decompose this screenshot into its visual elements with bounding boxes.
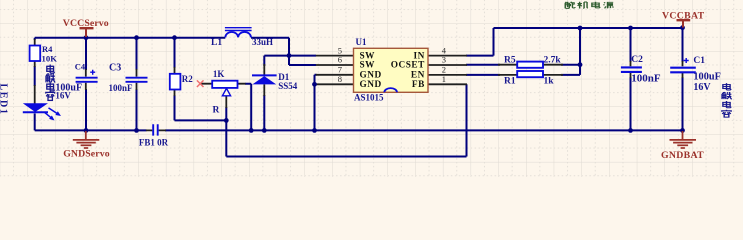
svg-text:GNDServo: GNDServo (63, 148, 110, 159)
svg-text:SW: SW (360, 61, 376, 71)
svg-text:2.7k: 2.7k (544, 55, 562, 65)
svg-text:U1: U1 (356, 37, 367, 47)
svg-text:GND: GND (360, 80, 382, 90)
svg-text:C1: C1 (693, 56, 705, 66)
svg-text:C2: C2 (631, 55, 643, 65)
svg-text:1: 1 (442, 74, 446, 84)
svg-text:L1: L1 (211, 38, 222, 48)
svg-text:100nF: 100nF (631, 72, 661, 84)
svg-text:6: 6 (338, 55, 342, 65)
svg-text:FB: FB (412, 80, 425, 90)
svg-text:3: 3 (442, 55, 446, 65)
svg-text:GNDBAT: GNDBAT (661, 150, 704, 161)
svg-text:R: R (213, 106, 220, 116)
svg-text:100nF: 100nF (109, 83, 134, 93)
svg-text:C4: C4 (75, 61, 86, 71)
svg-text:1k: 1k (544, 76, 555, 86)
svg-text:C3: C3 (109, 62, 121, 73)
svg-text:FB1 0R: FB1 0R (139, 138, 169, 148)
svg-text:VCCServo: VCCServo (63, 18, 109, 29)
svg-text:VCCBAT: VCCBAT (662, 11, 705, 22)
svg-text:R2: R2 (182, 74, 193, 84)
svg-text:16V: 16V (693, 82, 711, 93)
svg-text:R4: R4 (42, 44, 53, 54)
svg-text:1K: 1K (213, 69, 225, 79)
svg-text:LED1: LED1 (0, 84, 9, 116)
svg-text:10K: 10K (42, 53, 58, 63)
svg-text:OCSET: OCSET (391, 61, 425, 71)
svg-text:R1: R1 (504, 76, 516, 86)
svg-text:8: 8 (338, 74, 342, 84)
svg-text:33uH: 33uH (252, 37, 273, 47)
svg-text:16V: 16V (55, 91, 71, 101)
svg-text:SS54: SS54 (278, 81, 298, 91)
svg-text:R5: R5 (504, 55, 516, 65)
svg-text:AS1015: AS1015 (354, 92, 384, 102)
svg-text:100uF: 100uF (693, 71, 720, 82)
